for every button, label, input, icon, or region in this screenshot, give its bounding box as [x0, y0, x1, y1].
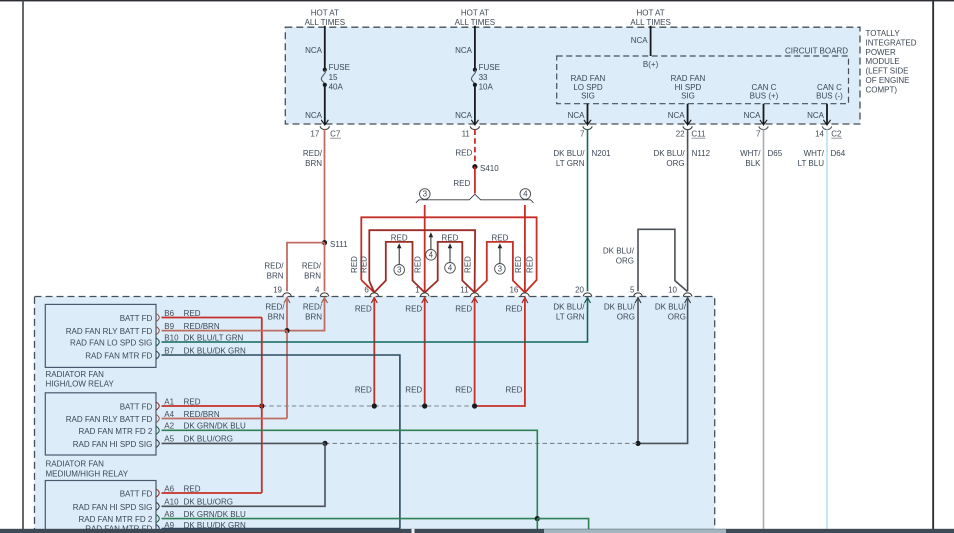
- wire RED branch 4 vertical to pin 16: [524, 205, 526, 293]
- svg-text:11: 11: [460, 286, 469, 295]
- wire RED goalpost G2 pins 1-11: [425, 242, 475, 293]
- pin A4 rad fan rly batt fd row: [66, 410, 220, 424]
- svg-text:ORG: ORG: [668, 313, 686, 322]
- svg-text:15: 15: [329, 73, 338, 82]
- svg-text:DK BLU/ORG: DK BLU/ORG: [184, 435, 233, 444]
- svg-text:RED: RED: [405, 305, 422, 314]
- pin A1 batt fd row: [120, 397, 201, 411]
- svg-text:HOT AT: HOT AT: [461, 9, 489, 18]
- svg-text:RED/: RED/: [302, 262, 322, 271]
- svg-text:CAN C: CAN C: [817, 83, 842, 92]
- label WHT/LT BLU D64: [798, 149, 846, 168]
- label DK BLU/LT GRN pin 20: [553, 303, 585, 322]
- wire RED/BRN A4 row: [162, 418, 288, 420]
- wire can c bus - inside module: [826, 104, 828, 124]
- svg-text:S111: S111: [330, 240, 348, 249]
- svg-text:3: 3: [498, 265, 503, 274]
- pin 14 connector C2 exit arrow: [823, 120, 830, 125]
- svg-text:RADIATOR FAN: RADIATOR FAN: [46, 460, 105, 469]
- svg-text:INTEGRATED: INTEGRATED: [866, 38, 917, 47]
- svg-text:16: 16: [509, 286, 518, 295]
- svg-text:RED: RED: [359, 256, 368, 273]
- svg-text:NCA: NCA: [807, 111, 825, 120]
- wire DK BLU/LT GRN from pin 7 to relay pin 20: [587, 130, 589, 292]
- svg-text:DK BLU/: DK BLU/: [603, 247, 635, 256]
- wire DK BLU/ORG from pin 22 to relay pin 10: [687, 130, 689, 292]
- svg-text:RED: RED: [464, 256, 473, 273]
- label DK BLU/ORG pin 5: [604, 303, 636, 322]
- wire rad fan hi spd sig inside module: [687, 104, 689, 124]
- label RAD FAN HI SPD SIG: [671, 74, 706, 101]
- wire RED dashed from pin 11 to S410: [474, 130, 476, 167]
- pin 17 connector C7 exit arrow: [321, 120, 328, 125]
- wire H1 left leg to pin 6: [361, 280, 374, 293]
- svg-text:HIGH/LOW RELAY: HIGH/LOW RELAY: [46, 380, 115, 389]
- svg-text:A4: A4: [164, 410, 174, 419]
- svg-text:ALL TIMES: ALL TIMES: [630, 18, 670, 27]
- svg-text:RED: RED: [405, 386, 422, 395]
- label TOTALLY INTEGRATED POWER MODULE: [866, 29, 917, 94]
- wire WHT/LT BLU can bus -: [826, 130, 828, 529]
- wire RED harness second horizontal H2: [369, 230, 475, 292]
- svg-text:BUS (-): BUS (-): [816, 92, 843, 101]
- node circled 4: [520, 189, 531, 200]
- svg-text:A8: A8: [164, 510, 174, 519]
- svg-text:RED/: RED/: [264, 262, 284, 271]
- wire WHT/BLK can bus +: [763, 130, 765, 529]
- entry arrowheads below relay box edge: [284, 298, 691, 303]
- connector arcs at relay box edge: [283, 293, 692, 297]
- wire RED B6 row: [162, 317, 262, 319]
- svg-text:B6: B6: [164, 309, 174, 318]
- svg-text:RAD FAN RLY BATT FD: RAD FAN RLY BATT FD: [66, 415, 153, 424]
- label DK BLU/LT GRN N201: [553, 149, 611, 168]
- wire RED goalpost G3 pins 11-16: [475, 242, 525, 293]
- svg-text:A1: A1: [164, 397, 174, 406]
- wire RED/BRN pin 19 stub to B9 junction: [286, 297, 288, 331]
- label RED/BRN left branch: [264, 262, 284, 281]
- svg-text:RED: RED: [184, 484, 201, 493]
- wire can c bus + inside module: [763, 104, 765, 124]
- svg-text:3: 3: [423, 190, 428, 199]
- fuse F33 10A: [471, 63, 500, 91]
- label DK BLU/ORG pin 10: [655, 303, 687, 322]
- svg-text:NCA: NCA: [568, 111, 586, 120]
- svg-text:RED/BRN: RED/BRN: [184, 410, 220, 419]
- svg-text:WHT/: WHT/: [804, 149, 825, 158]
- svg-text:RED/: RED/: [303, 303, 323, 312]
- svg-text:10A: 10A: [479, 82, 494, 91]
- svg-text:DK GRN/DK BLU: DK GRN/DK BLU: [184, 422, 246, 431]
- svg-text:14: 14: [815, 130, 824, 139]
- svg-text:4: 4: [523, 190, 528, 199]
- svg-text:NCA: NCA: [668, 111, 686, 120]
- svg-text:RED: RED: [491, 233, 508, 242]
- svg-text:WHT/: WHT/: [740, 149, 761, 158]
- svg-text:RED: RED: [453, 179, 470, 188]
- label CAN C BUS (-): [816, 83, 843, 101]
- svg-text:POWER: POWER: [866, 48, 896, 57]
- svg-text:DK BLU/: DK BLU/: [604, 303, 636, 312]
- svg-text:RED: RED: [414, 256, 423, 273]
- svg-text:A2: A2: [164, 422, 174, 431]
- svg-text:RED: RED: [184, 309, 201, 318]
- svg-text:DK GRN/DK BLU: DK GRN/DK BLU: [184, 510, 246, 519]
- svg-text:MODULE: MODULE: [866, 57, 900, 66]
- svg-text:DK BLU/LT GRN: DK BLU/LT GRN: [184, 333, 244, 342]
- svg-text:NCA: NCA: [305, 111, 323, 120]
- wire RED/BRN B9 row: [162, 330, 288, 332]
- svg-text:(LEFT SIDE: (LEFT SIDE: [866, 67, 909, 76]
- svg-text:C11: C11: [691, 130, 706, 139]
- svg-text:BLK: BLK: [745, 159, 761, 168]
- relay U2 medium/high relay box: [45, 393, 156, 455]
- wire fused feed 2 lower: [474, 85, 476, 124]
- splice S410: [472, 164, 477, 169]
- pin B9 rad fan rly batt fd row: [66, 322, 220, 336]
- svg-text:RED: RED: [355, 305, 372, 314]
- svg-text:HI SPD: HI SPD: [675, 83, 702, 92]
- svg-text:RED: RED: [455, 305, 472, 314]
- label DK BLU/ORG N112: [653, 149, 710, 168]
- wire RED from S410 to brace: [474, 167, 476, 194]
- svg-text:ORG: ORG: [666, 159, 684, 168]
- wire DK GRN/DK BLU A2 row to A8 junction: [162, 430, 538, 518]
- svg-text:4: 4: [429, 251, 434, 260]
- svg-text:DK BLU/ORG: DK BLU/ORG: [184, 498, 233, 507]
- svg-text:RAD FAN MTR FD: RAD FAN MTR FD: [85, 352, 152, 361]
- bottom bar gap: [412, 529, 415, 533]
- svg-text:BRN: BRN: [305, 313, 322, 322]
- svg-text:4: 4: [315, 286, 320, 295]
- label RAD FAN LO SPD SIG: [571, 74, 606, 101]
- svg-text:LT GRN: LT GRN: [556, 313, 585, 322]
- wire DK BLU/DK GRN A9 row: [162, 528, 400, 530]
- svg-text:FUSE: FUSE: [329, 63, 350, 72]
- svg-text:A10: A10: [164, 498, 179, 507]
- svg-text:NCA: NCA: [455, 46, 473, 55]
- svg-text:RED: RED: [184, 397, 201, 406]
- svg-text:BATT FD: BATT FD: [120, 403, 153, 412]
- svg-text:BATT FD: BATT FD: [120, 490, 153, 499]
- svg-text:C7: C7: [330, 130, 341, 139]
- svg-text:RED/: RED/: [265, 303, 285, 312]
- svg-text:COMPT): COMPT): [866, 85, 898, 94]
- svg-text:22: 22: [676, 130, 685, 139]
- svg-text:D64: D64: [831, 149, 846, 158]
- svg-text:BRN: BRN: [304, 272, 321, 281]
- svg-text:RADIATOR FAN: RADIATOR FAN: [46, 370, 105, 379]
- wire RED pin 6 stub: [373, 297, 375, 406]
- reference arrow 3 in G1: [394, 243, 405, 275]
- svg-text:MEDIUM/HIGH RELAY: MEDIUM/HIGH RELAY: [46, 469, 129, 478]
- svg-text:BRN: BRN: [305, 159, 322, 168]
- fuse F15 40A: [321, 63, 350, 91]
- svg-text:RAD FAN: RAD FAN: [671, 74, 706, 83]
- svg-text:RED: RED: [455, 386, 472, 395]
- svg-text:RAD FAN MTR FD 2: RAD FAN MTR FD 2: [79, 515, 153, 524]
- wire rad fan lo spd sig inside module: [587, 104, 589, 124]
- svg-text:NCA: NCA: [744, 111, 762, 120]
- reference arrow 3 in G3: [495, 243, 506, 274]
- node circled 3: [420, 189, 431, 200]
- svg-text:HOT AT: HOT AT: [637, 9, 665, 18]
- pin B7 rad fan mtr fd row: [85, 346, 246, 360]
- pin 7 can exit arrow: [760, 120, 767, 125]
- svg-text:CIRCUIT BOARD: CIRCUIT BOARD: [785, 47, 848, 56]
- pin B6 batt fd row: [120, 309, 201, 323]
- wire RED B6 vertical battery feed chain: [261, 318, 263, 494]
- svg-text:7: 7: [756, 130, 761, 139]
- brace splice branch symbol: [416, 194, 534, 203]
- svg-text:NCA: NCA: [631, 36, 649, 45]
- label DK BLU/ORG at goalpost: [603, 247, 635, 266]
- wire RED A1 row: [162, 405, 262, 407]
- pin A10 rad fan hi spd sig row: [73, 498, 233, 512]
- relay U3 box: [45, 481, 156, 533]
- wire DK GRN/DK BLU elbow to motor: [537, 519, 588, 530]
- svg-text:RAD FAN HI SPD SIG: RAD FAN HI SPD SIG: [73, 503, 153, 512]
- dashed battery feed bus A1 row: [262, 405, 475, 407]
- bottom bar light segment: [544, 529, 726, 533]
- wire RED pin 16 stub elbow to bus: [475, 297, 525, 406]
- svg-text:33: 33: [479, 73, 488, 82]
- svg-text:RED: RED: [526, 256, 535, 273]
- svg-text:RAD FAN RLY BATT FD: RAD FAN RLY BATT FD: [66, 327, 153, 336]
- wire DK GRN/DK BLU A8 row: [162, 518, 538, 520]
- svg-text:RED: RED: [391, 233, 408, 242]
- svg-text:17: 17: [310, 130, 319, 139]
- pin A6 batt fd row: [120, 484, 201, 498]
- node HOT AT ALL TIMES feed 1: [305, 9, 345, 27]
- svg-text:N112: N112: [692, 149, 711, 158]
- svg-text:B10: B10: [164, 333, 179, 342]
- svg-text:4: 4: [448, 264, 453, 273]
- svg-text:ALL TIMES: ALL TIMES: [455, 18, 495, 27]
- wire fused B(+) feed 2 upper: [474, 26, 476, 70]
- svg-text:RED: RED: [350, 256, 359, 273]
- svg-text:SIG: SIG: [681, 92, 695, 101]
- label CAN C BUS (+): [750, 83, 779, 101]
- wire DK GRN/DK BLU stub below junction: [536, 519, 538, 530]
- svg-text:RED: RED: [506, 386, 523, 395]
- wire DK BLU/ORG goalpost pin 5 branch: [638, 229, 687, 291]
- wire RED pin 1 stub: [424, 297, 426, 406]
- svg-text:NCA: NCA: [305, 46, 323, 55]
- frame right rule: [932, 0, 934, 529]
- wire DK BLU/ORG pin 5 stub to A5 junction: [637, 297, 639, 443]
- wire RED pin 11 stub: [474, 297, 476, 406]
- svg-text:3: 3: [397, 266, 402, 275]
- svg-text:BRN: BRN: [268, 313, 285, 322]
- svg-text:RED: RED: [355, 386, 372, 395]
- svg-text:B7: B7: [164, 346, 174, 355]
- svg-text:TOTALLY: TOTALLY: [866, 29, 901, 38]
- relay module box (radiator fan relays): [35, 297, 715, 533]
- svg-text:DK BLU/: DK BLU/: [553, 303, 585, 312]
- svg-text:RAD FAN MTR FD 2: RAD FAN MTR FD 2: [79, 427, 153, 436]
- svg-text:BATT FD: BATT FD: [120, 314, 153, 323]
- svg-text:ORG: ORG: [617, 313, 635, 322]
- relay box pin number row: [273, 286, 677, 295]
- relay U1 caption: [46, 370, 115, 389]
- svg-text:DK BLU/DK GRN: DK BLU/DK GRN: [184, 346, 246, 355]
- wire RED A6 row: [162, 492, 262, 494]
- svg-text:RED: RED: [514, 256, 523, 273]
- svg-text:11: 11: [462, 130, 471, 139]
- TIPM module box (totally integrated power module): [285, 27, 860, 124]
- svg-text:RAD FAN HI SPD SIG: RAD FAN HI SPD SIG: [73, 440, 153, 449]
- svg-text:RAD FAN: RAD FAN: [571, 74, 606, 83]
- pin 22 connector C11 exit arrow: [684, 120, 691, 125]
- pin 11 connector exit arrow: [471, 120, 478, 125]
- svg-text:LT BLU: LT BLU: [798, 159, 825, 168]
- svg-text:ALL TIMES: ALL TIMES: [305, 18, 345, 27]
- wire DK BLU/ORG pin 10 stub elbow to A5 junction: [638, 297, 688, 443]
- pin 7 exit arrow: [584, 120, 591, 125]
- svg-text:RED: RED: [506, 305, 523, 314]
- wire RED/BRN pin 4 stub to B9 row: [287, 297, 325, 331]
- svg-text:BUS (+): BUS (+): [750, 92, 779, 101]
- wire RED/BRN junction down to A4 row: [286, 331, 288, 419]
- svg-text:B9: B9: [164, 322, 174, 331]
- wire DK BLU/ORG A5 row: [162, 442, 326, 444]
- wire RED goalpost G1 pins 6-1: [374, 242, 424, 293]
- svg-text:SIG: SIG: [581, 92, 595, 101]
- svg-text:N201: N201: [592, 149, 612, 158]
- node HOT AT ALL TIMES feed 2: [455, 9, 495, 27]
- label WHT/BLK D65: [740, 149, 783, 168]
- wire DK BLU/ORG A5 junction down to A10 row: [162, 443, 326, 506]
- svg-text:5: 5: [630, 286, 635, 295]
- svg-text:1: 1: [415, 286, 420, 295]
- svg-text:HOT AT: HOT AT: [311, 9, 339, 18]
- wire RED/BRN S111 branch to pin 19: [287, 243, 325, 292]
- wire RED/BRN S111 to pin 4: [324, 243, 326, 292]
- pin A8 rad fan mtr fd 2 row: [79, 510, 247, 524]
- svg-text:RED/BRN: RED/BRN: [184, 322, 220, 331]
- reference arrow 4 beside pin 1: [426, 232, 437, 260]
- svg-text:20: 20: [575, 286, 584, 295]
- junction dot A5 row left: [322, 441, 327, 446]
- svg-text:LT GRN: LT GRN: [556, 159, 585, 168]
- junction dot bus pin 6: [372, 403, 377, 408]
- wire RED branch 3 vertical to pin 1: [424, 205, 426, 293]
- svg-text:7: 7: [580, 130, 585, 139]
- dashed bus A5 row: [325, 442, 638, 444]
- svg-text:S410: S410: [480, 164, 499, 173]
- splice S111: [322, 240, 327, 245]
- svg-text:RED: RED: [442, 233, 459, 242]
- svg-text:A5: A5: [164, 435, 174, 444]
- label RED/BRN right branch: [302, 262, 322, 281]
- svg-text:10: 10: [668, 286, 677, 295]
- junction dot bus pin 1: [422, 403, 427, 408]
- svg-text:DK BLU/: DK BLU/: [653, 149, 685, 158]
- pin A5 rad fan hi spd sig row: [73, 435, 233, 449]
- svg-text:LO SPD: LO SPD: [573, 83, 603, 92]
- svg-text:BRN: BRN: [267, 272, 284, 281]
- junction dot bus B6 branch: [259, 403, 264, 408]
- wire fused feed 1 lower: [324, 85, 326, 124]
- junction dot A8 A2: [535, 516, 540, 521]
- wire B(+) feed 3: [650, 26, 652, 56]
- wire RED/BRN from C7 pin 17 to S111: [324, 130, 326, 243]
- wire RED harness top horizontal H1: [361, 217, 536, 292]
- junction dot B9 pin19: [284, 328, 289, 333]
- svg-text:DK BLU/: DK BLU/: [553, 149, 585, 158]
- circuit board inner box: [557, 56, 849, 104]
- svg-text:CAN C: CAN C: [752, 83, 777, 92]
- wire fused B(+) feed 1 upper: [324, 26, 326, 70]
- label RED/BRN: [303, 149, 323, 168]
- bottom bar window edge: [0, 529, 954, 533]
- svg-text:40A: 40A: [329, 82, 344, 91]
- svg-text:NCA: NCA: [455, 111, 473, 120]
- wire DK BLU/DK GRN B7 row to A9: [162, 355, 400, 529]
- svg-text:A6: A6: [164, 484, 174, 493]
- svg-text:DK BLU/: DK BLU/: [655, 303, 687, 312]
- svg-text:6: 6: [364, 286, 369, 295]
- svg-text:ORG: ORG: [616, 257, 634, 266]
- svg-text:C2: C2: [831, 130, 842, 139]
- label RED/BRN pin 4: [303, 303, 323, 322]
- svg-text:RAD FAN LO SPD SIG: RAD FAN LO SPD SIG: [70, 339, 152, 348]
- svg-text:OF ENGINE: OF ENGINE: [866, 76, 910, 85]
- svg-text:B(+): B(+): [643, 60, 659, 69]
- frame left rule: [22, 0, 24, 529]
- svg-text:D65: D65: [768, 149, 783, 158]
- pin A9 rad fan mtr fd row: [85, 521, 246, 533]
- junction dot bus pin 11: [472, 403, 477, 408]
- pin A2 rad fan mtr fd 2 row: [79, 422, 247, 436]
- svg-text:19: 19: [273, 286, 282, 295]
- label RED/BRN pin 19: [265, 303, 285, 322]
- relay U1 high/low relay box: [45, 304, 156, 367]
- wire DK BLU/LT GRN pin 20 stub to B10 row: [162, 297, 588, 342]
- wire H2 left leg to pin 6: [369, 281, 374, 293]
- relay U2 caption: [46, 460, 129, 479]
- junction dot A5 pins 5-10: [635, 441, 640, 446]
- svg-text:FUSE: FUSE: [479, 63, 500, 72]
- pin B10 rad fan lo spd sig row: [70, 333, 243, 347]
- frame top border: [0, 0, 954, 1]
- svg-text:RED: RED: [455, 149, 472, 158]
- reference arrow 4 in G2: [445, 243, 456, 273]
- node HOT AT ALL TIMES feed 3: [630, 9, 670, 27]
- svg-text:RED/: RED/: [303, 149, 323, 158]
